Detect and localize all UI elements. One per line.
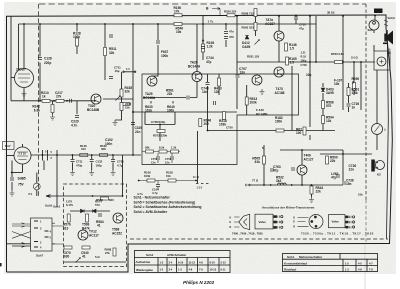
svg-text:100k: 100k: [144, 174, 151, 178]
svg-text:9-10: 9-10: [178, 260, 184, 264]
svg-text:5: 5: [262, 146, 264, 150]
svg-text:1k: 1k: [42, 95, 46, 99]
svg-text:5: 5: [45, 151, 47, 154]
svg-text:220p: 220p: [44, 61, 51, 65]
svg-text:Konstantfahrlauf: Konstantfahrlauf: [284, 261, 307, 265]
svg-text:Philips N 2202: Philips N 2202: [183, 280, 215, 285]
svg-text:6: 6: [51, 157, 53, 160]
svg-text:Si 1Ω: Si 1Ω: [351, 56, 358, 60]
svg-text:630: 630: [64, 255, 70, 259]
svg-text:22k: 22k: [316, 190, 322, 194]
svg-text:21k: 21k: [358, 193, 363, 197]
svg-text:27k: 27k: [105, 251, 110, 255]
svg-text:R560 523: R560 523: [242, 26, 255, 30]
svg-text:AC117: AC117: [89, 234, 99, 238]
svg-text:Sch1: Sch1: [287, 255, 295, 259]
svg-text:1: 1: [40, 221, 42, 224]
svg-text:3k3: 3k3: [276, 179, 282, 183]
svg-text:41: 41: [82, 255, 86, 259]
svg-text:AC187: AC187: [265, 22, 275, 26]
svg-text:75V: 75V: [18, 183, 25, 187]
svg-text:12n: 12n: [151, 160, 156, 164]
svg-text:Mehrumschalter: Mehrumschalter: [299, 255, 323, 259]
svg-text:1.5: 1.5: [290, 47, 295, 51]
svg-text:100k: 100k: [275, 120, 282, 124]
svg-text:2 Gu7: 2 Gu7: [16, 68, 26, 72]
svg-text:100: 100: [296, 131, 302, 135]
svg-text:Sch1 - Netzumschalter: Sch1 - Netzumschalter: [134, 196, 171, 200]
svg-text:K2: K2: [377, 173, 381, 177]
svg-text:10µ: 10µ: [115, 69, 120, 73]
svg-text:101k: 101k: [145, 109, 152, 113]
svg-text:313: 313: [63, 227, 69, 231]
svg-text:100k: 100k: [161, 54, 168, 58]
svg-text:R568 712: R568 712: [242, 12, 255, 16]
svg-text:11 11: 11 11: [193, 176, 200, 179]
svg-text:Sch3: Sch3: [388, 16, 396, 20]
svg-text:1n: 1n: [352, 106, 356, 110]
svg-text:11-12: 11-12: [189, 260, 196, 264]
svg-text:Valve: Valve: [259, 220, 267, 224]
svg-text:12n: 12n: [349, 168, 355, 172]
svg-text:1-3: 1-3: [345, 268, 349, 272]
svg-text:22k: 22k: [167, 92, 173, 96]
svg-text:C128: C128: [44, 57, 52, 61]
svg-text:9-11: 9-11: [221, 268, 227, 272]
svg-text:100k: 100k: [73, 35, 80, 39]
svg-text:3-4: 3-4: [169, 268, 173, 272]
svg-text:100µ: 100µ: [301, 59, 307, 63]
svg-text:4: 4: [40, 247, 42, 250]
svg-text:Valve: Valve: [332, 220, 340, 224]
svg-text:Sch5 = Schaltbuchse (Fernbedie: Sch5 = Schaltbuchse (Fernbedienung): [134, 200, 196, 204]
svg-text:22k: 22k: [330, 159, 336, 163]
svg-text:B: B: [206, 7, 209, 11]
svg-text:8.2k: 8.2k: [159, 145, 165, 149]
svg-text:47µ: 47µ: [206, 60, 212, 64]
svg-text:7406 , 7409 , 7418 , 7630: 7406 , 7409 , 7418 , 7630: [232, 232, 263, 236]
svg-text:820: 820: [109, 198, 114, 202]
svg-text:Sch2 = Schaltbuchse Aufsteckvo: Sch2 = Schaltbuchse Aufsteckvorrichtung: [134, 205, 202, 209]
svg-text:38 1B: 38 1B: [327, 11, 334, 15]
svg-text:R.18: R.18: [301, 55, 307, 59]
svg-text:R: R: [230, 226, 232, 229]
svg-text:4-8: 4-8: [358, 268, 362, 272]
svg-text:47µ: 47µ: [299, 27, 304, 31]
svg-text:5: 5: [51, 151, 53, 154]
svg-text:2: 2: [40, 242, 42, 245]
svg-text:1-3: 1-3: [178, 268, 182, 272]
svg-text:8.17k: 8.17k: [66, 203, 73, 207]
svg-text:47µ: 47µ: [273, 169, 279, 173]
svg-text:7520 , 7530a , TK11 , TK18 , T: 7520 , 7530a , TK11 , TK18 , TK17 , TK30: [301, 232, 374, 236]
svg-text:4.7µ: 4.7µ: [117, 163, 123, 167]
svg-text:2-12: 2-12: [221, 260, 227, 264]
svg-text:R553 0.8k: R553 0.8k: [331, 52, 344, 56]
svg-text:328: 328: [101, 147, 106, 151]
svg-text:4-8: 4-8: [189, 268, 193, 272]
svg-text:10-13: 10-13: [210, 268, 217, 272]
svg-text:1.8k: 1.8k: [352, 91, 358, 95]
svg-text:BC148A: BC148A: [143, 96, 156, 100]
svg-text:15n: 15n: [346, 182, 352, 186]
svg-text:12k: 12k: [326, 119, 332, 123]
svg-text:4: 4: [50, 231, 52, 234]
svg-text:Aufnahme: Aufnahme: [136, 260, 151, 264]
svg-text:R578: R578: [96, 198, 103, 202]
svg-text:K: K: [293, 217, 295, 220]
svg-text:8Ω: 8Ω: [387, 51, 392, 55]
svg-text:13n: 13n: [240, 71, 246, 75]
svg-text:17k: 17k: [174, 10, 180, 14]
svg-text:570: 570: [326, 104, 332, 108]
svg-text:BC148A: BC148A: [188, 65, 201, 69]
svg-text:21n: 21n: [135, 130, 141, 134]
svg-text:1 Ts: 1 Ts: [208, 20, 214, 24]
svg-text:47µ: 47µ: [331, 176, 337, 180]
svg-text:28k: 28k: [145, 145, 150, 149]
svg-text:Rücklauf: Rücklauf: [284, 268, 296, 272]
svg-text:12k: 12k: [214, 90, 220, 94]
svg-text:1.2k: 1.2k: [207, 45, 213, 49]
svg-text:3: 3: [352, 81, 354, 85]
svg-text:Sch1: Sch1: [53, 205, 61, 209]
svg-text:AC127: AC127: [304, 158, 314, 162]
svg-text:100µ: 100µ: [96, 163, 103, 167]
svg-text:2 3 10: 2 3 10: [19, 152, 27, 156]
svg-text:2a3: 2a3: [367, 28, 372, 32]
svg-text:3: 3: [40, 228, 42, 231]
svg-text:41: 41: [97, 224, 101, 228]
svg-text:AC188: AC188: [275, 91, 285, 95]
svg-text:7-9: 7-9: [199, 268, 203, 272]
svg-text:4.7µ: 4.7µ: [152, 191, 158, 195]
svg-text:10k: 10k: [334, 82, 340, 86]
svg-text:Sch4 = AVM-Schalter: Sch4 = AVM-Schalter: [134, 210, 168, 214]
svg-text:K: K: [230, 216, 232, 219]
svg-text:47n: 47n: [229, 30, 234, 34]
svg-text:SdB5: SdB5: [18, 177, 26, 181]
svg-text:R572/220k: R572/220k: [153, 134, 168, 138]
svg-text:Anschlüsse der Röhre-Transisto: Anschlüsse der Röhre-Transistoren: [262, 206, 315, 210]
svg-text:4.7n: 4.7n: [71, 124, 77, 128]
svg-text:1-5: 1-5: [345, 261, 349, 265]
svg-text:100k: 100k: [167, 109, 174, 113]
svg-text:1.21: 1.21: [301, 51, 307, 55]
svg-text:1.5: 1.5: [290, 61, 295, 65]
svg-text:310: 310: [81, 147, 86, 151]
svg-text:12n: 12n: [165, 160, 170, 164]
svg-text:7-8: 7-8: [369, 268, 373, 272]
svg-text:3-4: 3-4: [169, 260, 173, 264]
svg-text:C736/100p: C736/100p: [151, 120, 166, 124]
svg-text:8-10: 8-10: [210, 260, 216, 264]
svg-text:E: E: [230, 221, 232, 224]
svg-text:5.Ω: 5.Ω: [95, 255, 100, 259]
svg-text:103k: 103k: [250, 101, 257, 105]
svg-text:6.8k: 6.8k: [34, 109, 40, 113]
svg-text:200: 200: [204, 122, 210, 126]
svg-text:61k: 61k: [255, 160, 261, 164]
svg-text:10k: 10k: [176, 30, 182, 34]
svg-text:BC148B: BC148B: [256, 112, 268, 116]
svg-text:1-2: 1-2: [160, 268, 164, 272]
svg-text:4-5: 4-5: [358, 261, 362, 265]
svg-text:3A95: 3A95: [326, 91, 334, 95]
svg-text:1-2: 1-2: [160, 260, 164, 264]
svg-text:10µ: 10µ: [306, 73, 312, 77]
svg-text:5: 5: [50, 237, 52, 240]
svg-text:AVM-Schalter: AVM-Schalter: [167, 253, 187, 257]
svg-text:BC148B: BC148B: [87, 108, 100, 112]
svg-text:77 Ω: 77 Ω: [252, 179, 259, 183]
svg-text:13n: 13n: [202, 90, 208, 94]
svg-text:Wiedergabe: Wiedergabe: [136, 268, 153, 272]
svg-text:Sch5: Sch5: [45, 204, 53, 208]
svg-text:32k: 32k: [125, 90, 131, 94]
svg-text:AC152: AC152: [112, 232, 122, 236]
svg-text:I: I: [385, 128, 386, 132]
svg-text:F1: F1: [29, 192, 33, 196]
svg-text:476: 476: [229, 35, 234, 39]
svg-text:R521 120: R521 120: [247, 55, 260, 59]
svg-text:Sch7: Sch7: [36, 254, 44, 258]
svg-text:1 2 5: 1 2 5: [197, 187, 203, 190]
svg-text:Sch4: Sch4: [146, 253, 154, 257]
svg-text:32k: 32k: [109, 51, 115, 55]
svg-text:27k: 27k: [56, 95, 62, 99]
svg-text:15k: 15k: [125, 106, 130, 110]
svg-text:3 4: 3 4: [126, 68, 130, 71]
svg-text:R550 220: R550 220: [224, 10, 237, 14]
svg-text:15k: 15k: [166, 174, 171, 178]
svg-text:470µ: 470µ: [76, 163, 83, 167]
svg-text:OA95: OA95: [242, 45, 251, 49]
svg-text:E: E: [293, 221, 295, 224]
svg-text:C750: C750: [226, 126, 233, 130]
svg-text:573: 573: [95, 203, 100, 207]
svg-text:Rö7: Rö7: [5, 144, 11, 148]
svg-text:R: R: [293, 225, 295, 228]
svg-text:4-8: 4-8: [199, 260, 203, 264]
svg-text:4-7: 4-7: [369, 261, 373, 265]
svg-text:C746: C746: [301, 63, 308, 67]
svg-text:1.2k: 1.2k: [171, 145, 177, 149]
